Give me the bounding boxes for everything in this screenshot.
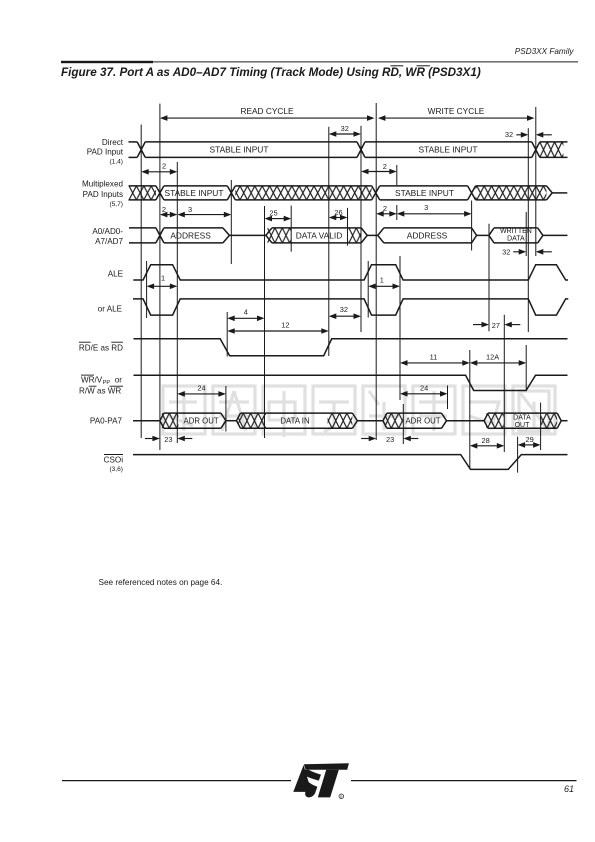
tick x541 [540,403,542,450]
footer rule right [351,780,577,782]
header rule thick segment [61,61,153,63]
ref line x489 [488,224,490,332]
svg-text:24: 24 [197,383,205,392]
svg-text:32: 32 [502,248,510,257]
svg-text:61: 61 [564,784,574,794]
svg-text:Figure 37. Port A as AD0–AD7: Figure 37. Port A as AD0–AD7 Timing (Tra… [61,66,481,79]
ref line x231 [230,180,232,264]
ref line x160 [159,104,161,450]
label CSOi (3,6) [104,455,124,473]
svg-text:12: 12 [281,321,289,330]
label Multiplexed PAD Inputs (5,7) [82,179,123,208]
tick x526 lower [525,345,527,391]
svg-text:STABLE INPUT: STABLE INPUT [395,188,454,198]
ref line x329 [328,127,330,356]
svg-text:A0/AD0-: A0/AD0- [92,227,123,236]
ref line x528 [527,128,529,332]
svg-text:(1,4): (1,4) [109,158,123,165]
svg-text:11: 11 [430,353,438,362]
svg-text:or: or [115,375,123,384]
label WR/Vpp or R/W as WR [79,375,123,395]
bus Multiplexed PAD Inputs [129,186,568,200]
svg-text:ADR OUT: ADR OUT [184,416,219,425]
svg-text:1: 1 [380,275,384,284]
svg-text:2: 2 [162,162,166,171]
svg-text:(5,7): (5,7) [109,201,123,208]
svg-text:32: 32 [505,130,513,139]
svg-text:32: 32 [340,305,348,314]
svg-text:23: 23 [386,435,394,444]
overline RD in title [391,65,404,67]
overline WR in title [417,65,430,67]
svg-text:DATA IN: DATA IN [280,416,309,425]
ref line x141 [140,125,142,439]
tick x403 [402,404,404,444]
label A0/AD0- A7/AD7 [92,227,123,246]
signal ALE [133,265,568,280]
watermark [163,386,555,437]
svg-text:Multiplexed: Multiplexed [82,179,123,188]
ref line x264 [264,206,266,438]
svg-text:28: 28 [481,436,489,445]
svg-text:STABLE INPUT: STABLE INPUT [210,145,269,155]
svg-text:or ALE: or ALE [98,304,123,313]
svg-text:STABLE INPUT: STABLE INPUT [419,145,478,155]
svg-text:CSOi: CSOi [104,455,124,464]
svg-text:ADR OUT: ADR OUT [405,416,440,425]
svg-text:4: 4 [244,307,248,316]
tick x227 rd [226,312,228,357]
svg-text:1: 1 [161,274,165,283]
svg-text:See referenced notes on page 6: See referenced notes on page 64. [99,578,223,587]
signal RD/E as RD [134,339,568,356]
ref line x400 [399,256,401,400]
tick x517 [517,437,519,473]
tick x397 upper [396,165,398,185]
svg-text:23: 23 [164,435,172,444]
svg-text:WRITE CYCLE: WRITE CYCLE [428,106,485,116]
svg-text:(3,6): (3,6) [109,466,123,473]
ref line x376 [375,103,377,440]
svg-text:DATA VALID: DATA VALID [296,230,343,240]
svg-text:ALE: ALE [108,270,124,279]
svg-text:READ CYCLE: READ CYCLE [240,106,293,116]
ref line x291 [290,206,292,252]
ref line x347 [347,208,349,246]
svg-text:PP: PP [103,380,111,386]
svg-text:PAD Input: PAD Input [87,148,124,157]
ref line x504 [503,315,505,452]
label RD/E as RD [79,342,123,352]
svg-text:25: 25 [269,208,277,217]
ST logo [293,763,349,799]
bus Direct PAD Input [129,142,568,158]
svg-text:PSD3XX Family: PSD3XX Family [515,47,575,56]
svg-text:ADDRESS: ADDRESS [170,230,211,240]
tick x368 ale [367,261,369,318]
bus PA0-PA7 [133,413,568,429]
svg-text:29: 29 [525,435,533,444]
svg-text:27: 27 [492,321,500,330]
svg-text:OUT: OUT [515,422,531,429]
svg-text:PA0-PA7: PA0-PA7 [90,416,123,425]
svg-text:32: 32 [341,124,349,133]
ref line x536 [535,107,537,256]
svg-text:2: 2 [383,162,387,171]
ref line x470 [469,350,471,468]
signal or ALE [133,299,568,315]
signal CSOi [133,455,568,470]
tick x447 [447,386,449,410]
svg-text:A7/AD7: A7/AD7 [95,237,123,246]
tick x526 upper [525,212,527,256]
svg-text:24: 24 [420,384,428,393]
ref line x177 [176,162,178,443]
svg-text:WRITTEN: WRITTEN [500,228,532,235]
svg-text:WR/V: WR/V [81,375,103,384]
footer rule left [62,780,291,782]
label Direct PAD Input (1,4) [87,138,124,165]
tick x146 ale [146,261,148,318]
svg-text:2: 2 [162,205,166,214]
svg-text:3: 3 [424,203,428,212]
header rule thin segment [153,61,578,63]
svg-text:12A: 12A [486,353,499,362]
svg-text:R/W as WR: R/W as WR [79,387,121,396]
tick x226 [225,386,227,432]
svg-text:RD/E as RD: RD/E as RD [79,343,123,352]
svg-text:3: 3 [188,205,192,214]
svg-text:DATA: DATA [513,414,531,421]
ref line x361 [360,126,362,332]
svg-text:PAD Inputs: PAD Inputs [83,190,123,199]
svg-text:ADDRESS: ADDRESS [407,230,448,240]
svg-text:Direct: Direct [102,138,124,147]
ref line x471 [471,201,473,251]
tick x397 lower [396,205,398,220]
bus A0/AD0-A7/AD7 [129,228,568,243]
signal WR/Vpp or R/W as WR [134,375,568,390]
svg-text:DATA: DATA [507,236,525,243]
svg-text:STABLE INPUT: STABLE INPUT [165,188,224,198]
